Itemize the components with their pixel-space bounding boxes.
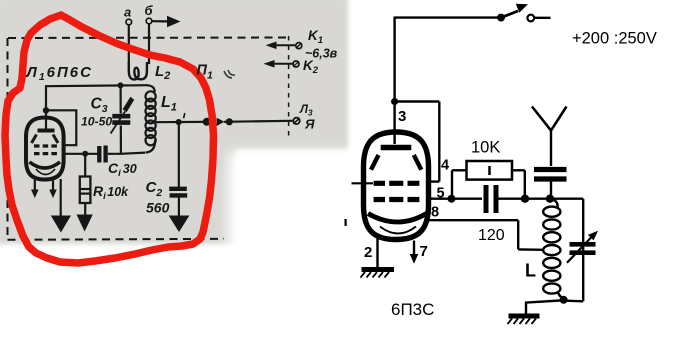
tick above tap	[184, 113, 185, 118]
svg-text:120: 120	[478, 227, 505, 244]
wire terminal b down	[148, 24, 150, 64]
grid capacitor plate 1	[484, 185, 489, 213]
C2 plate bottom	[170, 193, 188, 197]
ground hatches (tank)	[508, 319, 537, 325]
resistor Ri bottom lead	[84, 203, 86, 215]
heater lead arrow 2	[52, 181, 54, 191]
svg-text:8: 8	[431, 205, 439, 221]
wire to right branch	[554, 197, 583, 199]
wire to grid cap	[455, 197, 482, 199]
tube L1 beam plate right	[53, 135, 58, 144]
dashed unit border top	[8, 37, 289, 40]
svg-text:3: 3	[398, 108, 406, 125]
wire node to antenna node	[529, 197, 546, 199]
wire cap to node	[499, 197, 522, 199]
pin 7 lead	[413, 241, 415, 257]
cathode arc	[368, 214, 427, 223]
tube L1 beam plate left	[32, 135, 37, 144]
svg-text:7: 7	[420, 243, 428, 260]
label P1 (over red)	[197, 63, 236, 82]
svg-text:560: 560	[146, 200, 170, 216]
beam plate left	[371, 155, 379, 170]
switch pivot dot	[497, 14, 505, 22]
wire to ground	[526, 301, 560, 315]
tube L1 anode plate	[38, 129, 55, 133]
pin 5 wire	[429, 197, 449, 199]
tank coil L1 loops	[146, 91, 156, 145]
tube L1 cathode arc	[30, 162, 61, 168]
resistor riser from pin5 node	[451, 170, 453, 198]
stray tick left of tube	[345, 219, 347, 226]
SCAN CONTENT	[8, 3, 338, 240]
grid capacitor Ci plate2	[103, 146, 107, 163]
tank coil L1 top bend	[147, 85, 155, 92]
terminal b	[146, 18, 152, 24]
switch open contact circle	[527, 15, 534, 22]
variable capacitor plate top	[570, 242, 596, 247]
connector P1 arrow	[217, 118, 225, 126]
grid resistor Ri drop	[84, 156, 86, 177]
antenna cap plate bottom	[534, 176, 567, 181]
terminal K2 circle	[293, 61, 299, 67]
tank coil L1 bottom bend	[146, 140, 155, 153]
arrow out (right)	[167, 16, 181, 27]
C3 plate top	[112, 114, 130, 119]
terminal K1 circle	[296, 43, 302, 49]
grid row 1	[374, 181, 420, 186]
svg-text:Я: Я	[304, 117, 315, 132]
C3 arrow head	[123, 97, 135, 112]
antenna cap plate top	[534, 167, 567, 172]
plate node dot	[391, 98, 398, 105]
connector P1 dot left	[203, 118, 211, 126]
antenna node dot	[546, 195, 554, 203]
C3 plate bottom	[112, 120, 130, 125]
rail after switch	[534, 17, 550, 19]
tube L1 inner arc	[36, 169, 55, 175]
svg-text:10-50: 10-50	[81, 115, 112, 129]
tube 6P3S envelope	[364, 132, 429, 240]
anode junction dot	[43, 107, 49, 113]
svg-text:2: 2	[364, 244, 372, 261]
variable capacitor arrow shaft	[567, 237, 592, 263]
pin 7 arrowhead	[410, 254, 419, 264]
svg-text:4: 4	[441, 158, 449, 174]
svg-text:6П3С: 6П3С	[391, 300, 434, 319]
wire terminal a down	[128, 25, 130, 64]
RIGHT SCHEMATIC	[346, 4, 657, 324]
pin 8 wire down	[517, 220, 519, 249]
pin 5 node dot	[448, 195, 456, 203]
resistor Ri body	[80, 177, 91, 204]
tap node dot	[176, 119, 182, 125]
pin 2 lead	[376, 239, 378, 268]
tank coil L top curl	[552, 200, 558, 209]
grid row 2	[374, 197, 420, 202]
ground triangle (cathode)	[51, 216, 71, 233]
tube L1 envelope	[26, 118, 64, 180]
coil bottom node dot	[560, 296, 568, 304]
variable capacitor arrowhead	[588, 231, 598, 241]
screen feed wire across	[395, 100, 440, 102]
pin 8 tap into coil	[518, 248, 544, 251]
heater terminal K1 arrow	[270, 44, 296, 46]
tube anode plate	[381, 145, 412, 150]
ground bar (tank)	[509, 314, 540, 319]
plate riser	[393, 17, 395, 102]
switch lever	[502, 11, 518, 17]
heater lead arrow 1	[34, 180, 36, 190]
pin 8 wire	[429, 219, 519, 221]
LEFT SCAN BACKGROUND	[0, 0, 348, 244]
anode top rail wire	[46, 85, 148, 110]
C3 arrow shaft	[111, 112, 125, 134]
screen-grid loop wire	[48, 110, 76, 145]
coupling coil L2	[129, 62, 147, 79]
wire b to arrow	[152, 20, 167, 22]
tube L1 grid row1	[34, 144, 58, 147]
dashed unit border left	[7, 38, 9, 239]
cathode inner arc	[380, 227, 416, 234]
resistor inner tick	[488, 166, 491, 175]
resistor Ri band1	[80, 188, 90, 190]
node dot (resistor junction)	[521, 195, 529, 203]
grid capacitor plate 2	[494, 185, 499, 213]
cathode lead down	[60, 179, 62, 216]
pin 3 lead into tube	[393, 102, 395, 145]
ground hatches (pin2)	[361, 272, 390, 278]
grid capacitor Ci plate1	[97, 146, 101, 163]
right branch down	[582, 199, 584, 302]
ground triangle (C2)	[169, 216, 190, 233]
svg-text:+200 :250V: +200 :250V	[572, 30, 657, 48]
resistor right lead	[512, 169, 525, 171]
wire Ci to tank bottom	[108, 153, 146, 154]
screen feed into tube (pin 4)	[427, 180, 439, 182]
ground triangle (Ri)	[77, 215, 93, 232]
tap wire to output	[156, 121, 203, 123]
dashed unit border right	[288, 36, 290, 137]
variable capacitor C3 stem	[119, 87, 122, 154]
tank coil L loops	[543, 207, 560, 294]
dashed unit border bottom	[8, 239, 225, 240]
resistor 10K body	[467, 161, 513, 180]
connector P1 dot right	[226, 118, 233, 125]
tube L1 grid row2	[34, 152, 58, 155]
switch lever arrowhead	[516, 4, 528, 13]
resistor drop to node	[524, 170, 526, 195]
terminal a	[126, 19, 132, 25]
tube L1 anode lead	[45, 112, 47, 129]
screen feed wire down	[438, 102, 440, 182]
bypass capacitor C2 drop	[178, 125, 180, 187]
ground bar (pin2)	[362, 267, 395, 272]
bottom wire to coil	[566, 300, 583, 303]
svg-text:10K: 10K	[471, 139, 500, 157]
resistor left lead	[452, 169, 467, 171]
antenna stem	[550, 131, 552, 167]
antenna arms	[532, 107, 567, 131]
variable capacitor plate bottom	[570, 250, 596, 255]
wire to output terminal	[224, 121, 293, 122]
beam plate right	[414, 155, 422, 170]
resistor Ri band2	[80, 193, 90, 195]
antenna cap lead down	[550, 182, 552, 196]
svg-text:L: L	[525, 261, 536, 281]
red marker outline	[5, 15, 214, 263]
svg-text:а: а	[124, 5, 131, 20]
RED ANNOTATION	[5, 15, 214, 263]
tank coil L bottom curl	[558, 292, 564, 299]
output terminal circle	[293, 118, 299, 124]
svg-text:Л16П6С: Л16П6С	[26, 64, 93, 83]
grid node dot	[82, 151, 88, 157]
C2 plate top	[169, 187, 187, 191]
node dot on rail (C3 top)	[118, 82, 124, 88]
smudge next to P1	[224, 70, 235, 78]
C2 bottom lead	[178, 198, 180, 217]
svg-text:б: б	[145, 3, 154, 18]
anode supply rail	[395, 16, 498, 18]
heater terminal K2 arrow	[268, 63, 293, 65]
grid stub left	[352, 182, 374, 184]
grid wire out (row2)	[64, 153, 98, 155]
